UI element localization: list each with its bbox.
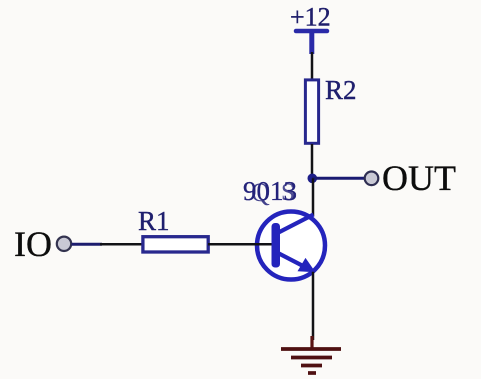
terminal IO [57, 237, 71, 251]
terminal OUT [365, 172, 379, 186]
power rail stub [309, 31, 314, 54]
transistor base bar [272, 223, 281, 268]
wire IO to R1 (dark part) [100, 243, 143, 246]
svg-text:+12: +12 [290, 3, 331, 32]
wire rail to R2 [311, 52, 314, 80]
wire R1 to base [208, 243, 272, 246]
wire emitter to ground [312, 272, 315, 340]
svg-text:R1: R1 [138, 206, 170, 236]
svg-text:OUT: OUT [382, 158, 456, 198]
ground stub [310, 336, 313, 349]
resistor R2 [305, 80, 318, 143]
svg-text:S: S [281, 179, 295, 206]
ground bar 2 [291, 356, 332, 360]
wire node to OUT terminal [312, 177, 365, 180]
wire R2 to node [311, 144, 314, 177]
power rail bar [296, 29, 327, 34]
svg-text:R2: R2 [325, 75, 357, 105]
ground bar 3 [301, 364, 322, 368]
transistor emitter arrowhead [298, 258, 316, 272]
wire IO to R1 (blue part) [72, 243, 103, 246]
wire collector [312, 178, 315, 216]
transistor emitter line [277, 253, 305, 268]
svg-text:IO: IO [14, 224, 52, 264]
resistor R1 [143, 237, 208, 252]
svg-text:Q: Q [251, 178, 270, 207]
transistor collector line [277, 215, 314, 234]
ground bar 4 [308, 371, 316, 375]
transistor Q1 body [257, 212, 325, 280]
node junction dot [308, 174, 318, 184]
ground bar 1 [281, 347, 341, 351]
label 9013 [243, 176, 297, 207]
